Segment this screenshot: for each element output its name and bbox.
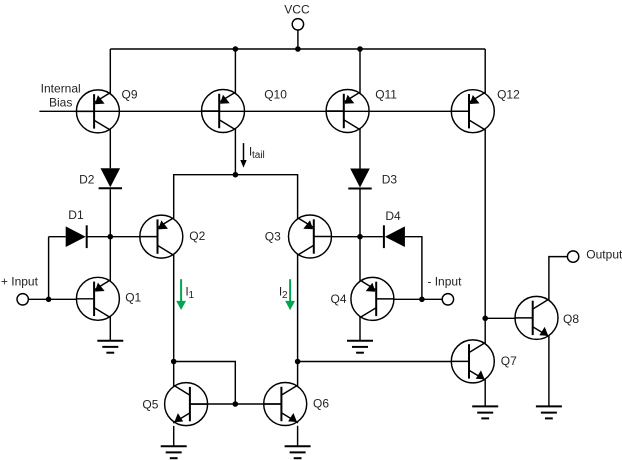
svg-text:+ Input: + Input	[1, 275, 39, 289]
svg-text:D2: D2	[79, 172, 95, 186]
svg-text:Q12: Q12	[497, 88, 520, 102]
svg-text:Q4: Q4	[331, 292, 347, 306]
svg-text:2: 2	[282, 290, 288, 301]
svg-text:D3: D3	[382, 173, 398, 187]
svg-text:VCC: VCC	[284, 3, 310, 17]
svg-text:Q3: Q3	[265, 230, 281, 244]
svg-text:D4: D4	[385, 209, 401, 223]
svg-text:Q2: Q2	[189, 229, 205, 243]
svg-text:Q10: Q10	[264, 88, 287, 102]
svg-text:D1: D1	[68, 208, 84, 222]
svg-text:Q9: Q9	[122, 88, 138, 102]
svg-text:1: 1	[189, 290, 195, 301]
svg-text:Q6: Q6	[313, 397, 329, 411]
svg-text:Output: Output	[586, 248, 622, 262]
svg-text:Q7: Q7	[501, 354, 517, 368]
svg-text:Internal: Internal	[41, 82, 81, 96]
svg-text:Bias: Bias	[49, 96, 72, 110]
svg-text:Q1: Q1	[125, 291, 141, 305]
svg-text:Q11: Q11	[375, 88, 397, 102]
svg-text:Q5: Q5	[142, 398, 158, 412]
svg-text:- Input: - Input	[427, 275, 462, 289]
svg-text:Q8: Q8	[563, 312, 579, 326]
svg-text:tail: tail	[252, 150, 265, 161]
